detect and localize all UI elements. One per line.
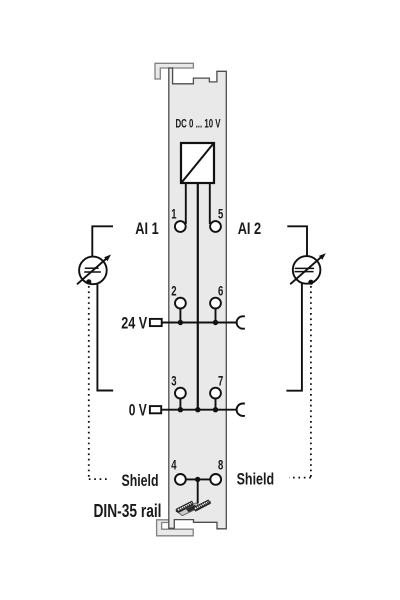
contact 5 [210,221,221,232]
svg-text:AI 2: AI 2 [238,219,261,238]
left sensor S1 circle [79,257,107,285]
left sensor wire to AI 1 [92,226,113,256]
module body [169,68,227,529]
A/D converter U1 box [181,143,214,183]
svg-text:24 V: 24 V [121,313,147,332]
contact 4 [175,474,186,485]
right sensor S2 circle [293,256,321,284]
right sensor wire to AI 2 [287,226,307,256]
DIN rail 3D symbol [176,500,211,515]
contact 2 [175,298,186,309]
left sensor wire to 0V [97,283,113,390]
contact 8 [210,474,221,485]
left sensor arrow [77,258,108,285]
junction dot 24V left [178,320,183,325]
svg-text:DIN-35 rail: DIN-35 rail [94,501,162,521]
junction dot shield [195,477,200,482]
stub contact 6 to 24V line [215,309,217,323]
junction dot 24V right [213,320,218,325]
svg-text:Shield: Shield [122,471,159,490]
right sensor DC line bottom [295,271,314,273]
left shield dotted wire [89,286,111,479]
svg-text:1: 1 [171,206,177,221]
0V open connector [237,404,245,416]
rail far flange [177,501,193,511]
top mounting tab with hook [155,63,193,79]
rail near flange hatch [196,501,209,509]
right sensor DC line top [295,267,314,269]
contact 1 [175,221,186,232]
svg-text:2: 2 [171,284,176,299]
junction dot 0V middle bus [195,407,200,412]
wire leg from U1 to contact 1 [185,183,187,224]
stub contact 7 to 0V line [215,399,217,410]
24V wire [162,322,237,324]
right sensor arrow [290,256,322,284]
right shield dotted wire [289,286,311,478]
right shield tap dot [308,280,313,285]
rail far flange end cap [176,509,179,513]
svg-text:5: 5 [218,206,224,221]
rail far flange side [178,504,193,513]
contact 7 [210,388,221,399]
wire leg from U1 to contact 5 [209,183,211,224]
svg-text:DC 0 ... 10 V: DC 0 ... 10 V [176,117,221,131]
rail base shading [178,503,201,516]
left shield tap dot [86,279,91,284]
24V open connector [237,316,245,328]
wire shield dot to DIN rail [197,479,199,503]
rail near flange [194,500,210,510]
shield link wire between contact 4 and 8 [186,478,211,480]
rail channel shadow [186,505,198,513]
A/D diagonal [182,144,213,182]
rail near flange side [195,503,210,512]
rail near flange end cap [208,500,211,504]
svg-text:AI 1: AI 1 [135,219,158,238]
0V wire [161,409,236,411]
svg-text:4: 4 [171,458,177,473]
svg-text:6: 6 [218,284,224,299]
stub contact 3 to 0V line [179,399,181,410]
left sensor DC line bottom [84,271,101,273]
contact 3 [175,388,186,399]
junction dot 0V right [213,407,218,412]
bottom plate and left release foot [157,520,194,536]
0V terminal box [150,406,161,413]
svg-text:Shield: Shield [237,469,275,488]
right sensor wire to 0V [286,283,302,391]
rail far flange hatch [179,502,193,510]
svg-text:7: 7 [218,374,223,389]
stub contact 2 to 24V line [179,309,181,323]
svg-text:0 V: 0 V [129,401,147,420]
svg-text:8: 8 [218,458,224,473]
svg-text:3: 3 [171,374,177,389]
junction dot 0V left [178,407,183,412]
left sensor DC line top [85,267,99,269]
24V terminal box [150,319,162,326]
middle bus wire from U1 down to 0V row [197,183,199,410]
contact 6 [210,298,221,309]
